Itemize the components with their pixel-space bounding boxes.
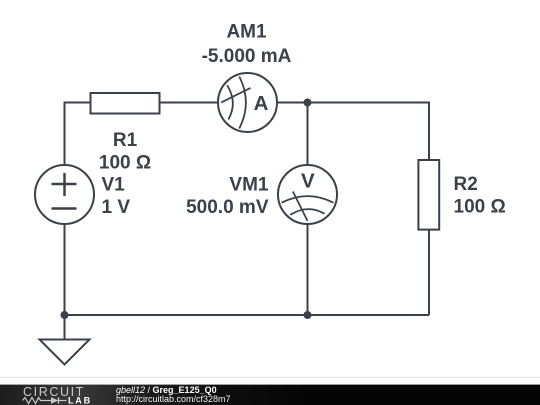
wire V1 top to R1 left <box>65 103 91 166</box>
footer logo resistor-diode symbol <box>23 397 67 403</box>
wire V1 bottom to ground <box>64 224 66 340</box>
svg-text:1 V: 1 V <box>102 197 131 218</box>
svg-text:R2: R2 <box>454 174 478 195</box>
svg-text:-5.000 mA: -5.000 mA <box>202 46 292 67</box>
footer logo diode triangle <box>51 397 59 404</box>
svg-text:VM1: VM1 <box>229 174 269 195</box>
wire R1 right to AM1 left <box>160 102 218 104</box>
wire AM1 right to node A to R2 top <box>277 103 429 160</box>
wire R2 bottom to bottom rail <box>428 230 430 315</box>
svg-text:A: A <box>254 92 269 115</box>
bottom rail wire <box>65 314 430 316</box>
svg-text:R1: R1 <box>113 130 138 151</box>
svg-text:V1: V1 <box>102 174 126 195</box>
voltage source V1 <box>35 165 94 224</box>
svg-text:http://circuitlab.com/cf328m7: http://circuitlab.com/cf328m7 <box>116 394 231 404</box>
node A junction dot <box>304 99 312 107</box>
svg-text:V: V <box>301 169 315 192</box>
svg-text:500.0 mV: 500.0 mV <box>186 197 269 218</box>
canvas bottom edge line <box>0 377 540 378</box>
svg-text:AM1: AM1 <box>226 21 267 42</box>
resistor R1 <box>91 93 160 114</box>
svg-text:LAB: LAB <box>68 395 92 405</box>
voltmeter VM1 <box>278 165 337 224</box>
wire node A down to VM1 top <box>307 103 309 166</box>
svg-text:100 Ω: 100 Ω <box>454 196 506 217</box>
ground <box>40 340 90 365</box>
bottom-left junction dot <box>61 311 69 319</box>
footer bar <box>0 385 540 405</box>
resistor R2 <box>418 160 439 230</box>
ammeter AM1 <box>218 73 277 132</box>
svg-text:100 Ω: 100 Ω <box>99 153 151 174</box>
bottom-middle junction dot <box>304 311 312 319</box>
wire VM1 bottom to bottom rail <box>307 224 309 315</box>
